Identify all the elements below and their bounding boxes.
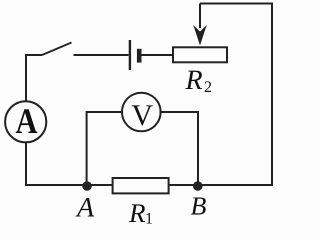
svg-text:A: A <box>16 101 38 141</box>
svg-text:R: R <box>185 65 203 96</box>
svg-text:V: V <box>131 99 153 132</box>
svg-text:B: B <box>191 191 207 220</box>
svg-text:2: 2 <box>204 79 212 96</box>
svg-text:A: A <box>75 192 95 223</box>
svg-text:1: 1 <box>145 211 153 228</box>
svg-text:R: R <box>128 198 146 228</box>
